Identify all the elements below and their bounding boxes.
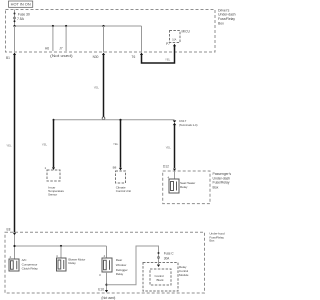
node blower relay junction (60, 245, 62, 247)
svg-text:Control: Control (155, 274, 165, 278)
svg-text:YEL: YEL (42, 143, 48, 147)
svg-text:Fuse 30: Fuse 30 (18, 13, 30, 17)
svg-text:A/C: A/C (22, 258, 28, 262)
svg-text:E8: E8 (7, 227, 11, 231)
svg-text:4: 4 (10, 255, 12, 259)
svg-text:YEL: YEL (94, 85, 100, 89)
terminal T6 arrow (140, 53, 143, 56)
terminal 1 arrow (52, 167, 55, 170)
svg-text:Under-dash: Under-dash (213, 176, 231, 180)
wire pin3 junction to fuse C (107, 246, 159, 285)
svg-text:Sensor: Sensor (48, 192, 57, 196)
svg-text:N30: N30 (93, 55, 99, 59)
terminal B1 arrow (13, 53, 16, 56)
svg-text:C617: C617 (179, 119, 187, 123)
node A/C relay junction (13, 245, 15, 247)
splice ring at rail (102, 117, 105, 120)
A/C compressor clutch relay (9, 259, 19, 271)
svg-text:Control: Control (179, 269, 189, 273)
svg-text:Window: Window (116, 263, 127, 267)
svg-text:10A: 10A (172, 38, 177, 41)
svg-text:Relay: Relay (179, 265, 187, 269)
svg-text:Fuse/Relay: Fuse/Relay (218, 17, 235, 21)
wire to terminal T6 (141, 26, 143, 52)
passenger's under-dash fuse/relay box (dashed) (163, 171, 210, 204)
svg-text:E16: E16 (98, 288, 104, 292)
svg-text:4: 4 (104, 254, 106, 258)
wire to in-car temperature sensor (YEL) (52, 120, 55, 167)
svg-text:MICU: MICU (182, 30, 191, 34)
svg-text:Driver’s: Driver’s (218, 8, 230, 12)
under-hood fuse/relay box (dashed) (5, 232, 205, 293)
seat heater relay (169, 179, 179, 193)
svg-text:Fuse C: Fuse C (164, 252, 174, 256)
svg-text:(Not used): (Not used) (50, 54, 73, 58)
svg-text:Relay: Relay (180, 185, 188, 189)
svg-text:Box: Box (218, 21, 224, 25)
svg-text:Control Unit: Control Unit (116, 189, 131, 193)
driver's under-dash fuse/relay box (dashed) (6, 10, 216, 53)
wire to climate control unit (YEL) (119, 120, 122, 168)
svg-text:Relay: Relay (116, 272, 124, 276)
svg-text:Compressor: Compressor (22, 262, 38, 266)
MICU (dashed) (170, 31, 181, 43)
svg-text:Module: Module (179, 273, 189, 277)
HOT IN ON label box (9, 1, 33, 7)
power rail (under-hood) (15, 245, 107, 247)
svg-text:30A: 30A (164, 256, 170, 260)
wire T6 to P7 (YEL) (142, 46, 175, 63)
wire N30 to splice (YEL) (102, 55, 105, 117)
svg-text:YEL: YEL (166, 146, 172, 150)
terminal arrow into control block (157, 265, 160, 268)
svg-text:(Not used): (Not used) (101, 296, 115, 300)
wire to blower motor relay (60, 246, 62, 258)
svg-text:7.5A: 7.5A (17, 17, 25, 21)
svg-text:Under-dash: Under-dash (218, 13, 236, 17)
wire to seat heater relay pin 4 (174, 171, 176, 179)
svg-text:Defogger: Defogger (116, 268, 128, 272)
node climate junction (119, 119, 121, 121)
fuse 30 (7.5A) (14, 10, 16, 27)
svg-text:Fuse/Relay: Fuse/Relay (213, 181, 230, 185)
terminal B8 arrow (119, 168, 122, 171)
svg-text:1: 1 (45, 166, 47, 170)
climate control unit (dashed) (116, 171, 126, 183)
svg-text:T6: T6 (132, 55, 136, 59)
svg-text:D12: D12 (163, 165, 169, 169)
bus wire from fuse (15, 25, 142, 27)
svg-text:YEL: YEL (113, 142, 119, 146)
wire B1 to E8 (YEL) (13, 55, 16, 232)
svg-text:(Terminals 1-4): (Terminals 1-4) (179, 123, 198, 127)
terminal N30 arrow (102, 53, 105, 56)
terminal D12 arrow (173, 169, 176, 172)
svg-text:B8: B8 (113, 166, 117, 170)
svg-text:J7: J7 (59, 46, 63, 50)
terminal E16 arrow (not used) (105, 290, 108, 293)
svg-text:Clutch Relay: Clutch Relay (22, 266, 39, 270)
svg-text:4: 4 (56, 254, 58, 258)
power rail (mid) (54, 119, 175, 121)
stub H6 (not used) (52, 25, 54, 27)
svg-text:Block: Block (157, 278, 165, 282)
svg-text:Seat Heater: Seat Heater (180, 181, 195, 185)
connector C617 (terminals 1-4) (173, 120, 177, 122)
svg-text:YEL: YEL (6, 143, 12, 147)
wire E8 to rail (14, 235, 16, 259)
svg-text:Relay: Relay (68, 261, 76, 265)
svg-text:HOT IN ON: HOT IN ON (11, 3, 31, 7)
fuse C (30A) (158, 252, 160, 254)
svg-text:Passenger’s: Passenger’s (213, 172, 232, 176)
svg-text:YEL: YEL (165, 58, 171, 62)
wire to terminal N30 (102, 25, 104, 27)
svg-text:B1: B1 (6, 56, 10, 60)
svg-text:Box: Box (209, 239, 215, 243)
node pin3 junction (105, 284, 107, 286)
wire pin3 to E16 (106, 272, 108, 291)
rear window defogger relay (102, 258, 112, 272)
svg-text:Rear: Rear (116, 258, 122, 262)
svg-text:Box: Box (213, 186, 219, 190)
blower motor relay (57, 258, 67, 271)
wire to terminal B1 (14, 26, 16, 52)
svg-text:3: 3 (99, 273, 101, 277)
relay control module (dashed) (143, 263, 178, 292)
in-car temperature sensor (dashed) (47, 170, 60, 181)
terminal P7 arrow (173, 44, 176, 47)
node fuse/bus junction (13, 25, 15, 27)
control block (dashed) (150, 269, 171, 285)
stub J7 (not used) (65, 25, 67, 27)
wire C617 to D12 (YEL) (173, 125, 176, 168)
svg-text:H6: H6 (45, 46, 49, 50)
wire to rear window defogger relay (106, 246, 108, 258)
